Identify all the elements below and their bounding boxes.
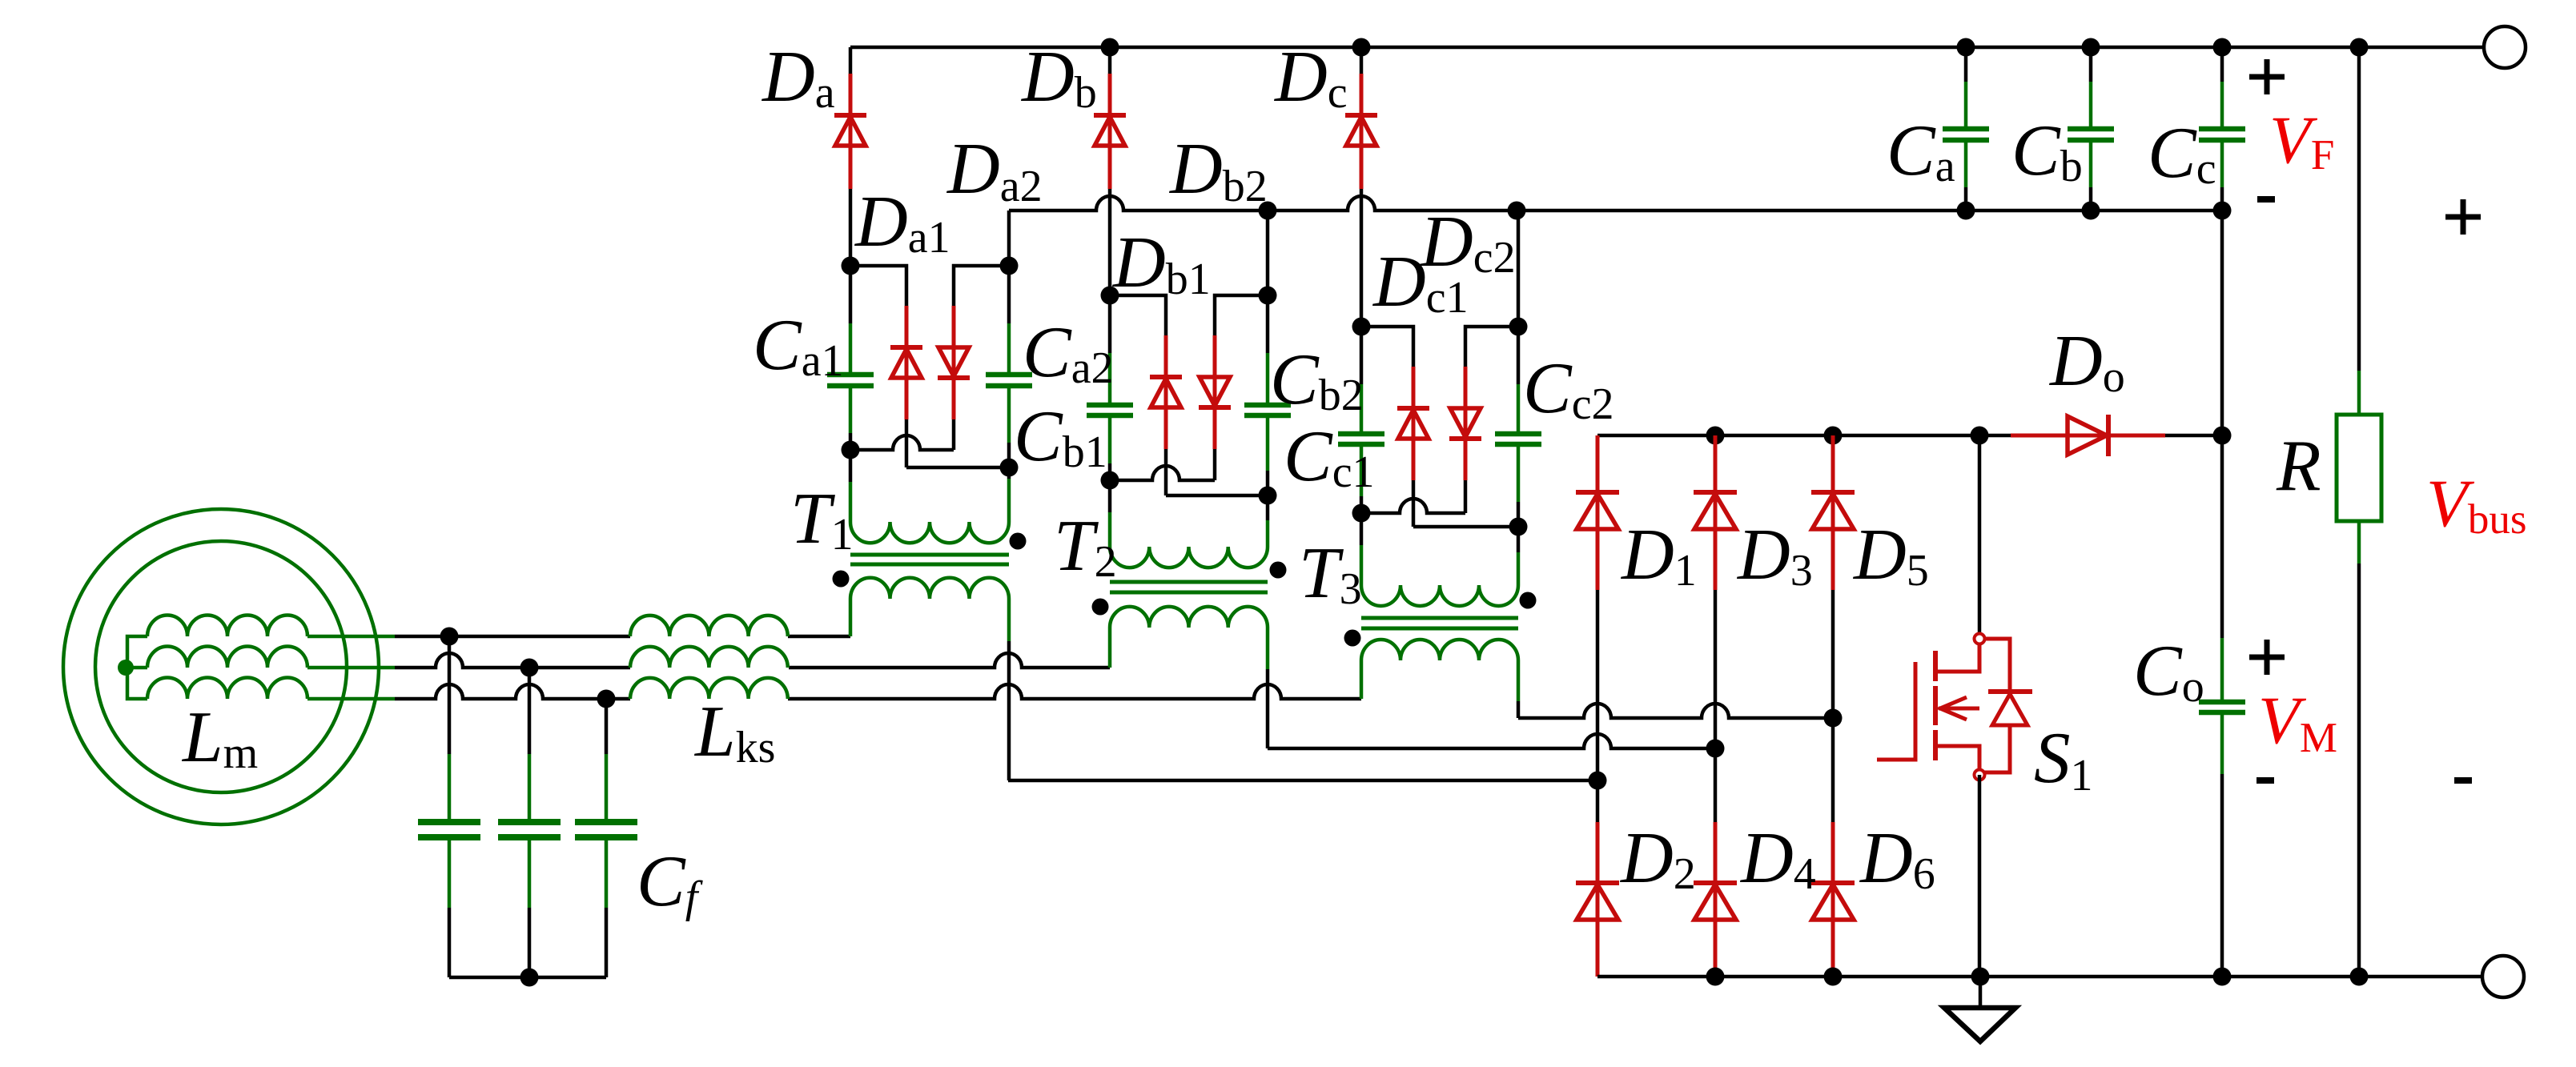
node Dc2 top-right junction — [1509, 318, 1528, 336]
node cell b bottom-right junction — [1259, 487, 1277, 505]
node Cb top junction — [2082, 38, 2100, 57]
svg-text:D6: D6 — [1859, 817, 1935, 899]
capacitor Ca1 — [827, 375, 874, 386]
generator Lm inner circle — [95, 541, 347, 792]
label Dc — [1273, 36, 1348, 118]
label Lks — [693, 691, 775, 772]
capacitor Cf3 top lead — [605, 699, 609, 822]
capacitor Cc1 bottom lead — [1360, 444, 1364, 513]
mosfet S1 drain wire — [1978, 435, 1982, 634]
ground — [1944, 977, 2015, 1041]
resistor R top lead — [2357, 47, 2361, 415]
svg-text:D5: D5 — [1852, 514, 1929, 596]
capacitor Cf2 bottom lead — [528, 837, 532, 977]
label D1 — [1620, 514, 1697, 596]
svg-text:D2: D2 — [1619, 817, 1696, 899]
diode D3 — [1694, 492, 1737, 529]
generator neutral node dot — [118, 660, 134, 676]
wire bottom output rail — [1597, 975, 2482, 979]
node Ca top junction — [1957, 38, 1975, 57]
label D6 — [1859, 817, 1935, 899]
diode Db1 leads — [1164, 335, 1168, 495]
transformer T2 primary winding — [1110, 607, 1268, 628]
diode Dc leads — [1360, 47, 1364, 327]
wire gen phase a green lead — [307, 635, 395, 639]
transformer T3 core — [1361, 618, 1518, 628]
label D3 — [1736, 514, 1813, 596]
resistor R bottom lead — [2357, 521, 2361, 977]
VF plus sign — [2249, 59, 2285, 94]
transformer T2 secondary left lead — [1108, 480, 1112, 547]
svg-text:D4: D4 — [1739, 817, 1816, 899]
diode Da1 leads — [905, 306, 909, 467]
node Dc2 rail junction — [1508, 202, 1526, 220]
svg-text:Co: Co — [2133, 630, 2204, 712]
capacitor Cf1 — [418, 822, 480, 837]
label Do — [2048, 320, 2125, 402]
transformer T1 primary left lead — [849, 599, 853, 636]
capacitor Co bottom lead — [2220, 712, 2224, 977]
label Vbus — [2426, 466, 2527, 543]
wire cell b right top lead — [1266, 211, 1270, 295]
label Ca1 — [753, 304, 844, 386]
capacitor Cf1 bottom lead — [448, 837, 452, 977]
wire cell a inner top-right elbow — [954, 266, 1009, 306]
svg-text:Ca1: Ca1 — [753, 304, 844, 386]
label S1 — [2034, 717, 2093, 800]
transformer T2 primary right lead — [1266, 628, 1270, 748]
node S1 source bottom junction — [1971, 968, 1990, 986]
svg-text:VF: VF — [2269, 102, 2334, 179]
diode D2 — [1576, 883, 1619, 920]
svg-text:Ca2: Ca2 — [1023, 311, 1114, 393]
label D5 — [1852, 514, 1929, 596]
svg-text:T3: T3 — [1299, 532, 1362, 614]
inductor Lks phase c — [630, 678, 788, 699]
wire T1 output to D1 midpoint — [1008, 779, 1597, 783]
diode Db2 — [1199, 377, 1231, 407]
transformer T1 secondary polarity dot — [1010, 533, 1027, 550]
capacitor Ca2 — [986, 375, 1032, 386]
diode Da leads — [849, 47, 853, 266]
capacitor Cf2 top lead — [528, 668, 532, 822]
svg-text:D1: D1 — [1620, 514, 1697, 596]
wire intermediate rail — [1009, 196, 2222, 266]
diode Db1 — [1150, 377, 1182, 407]
svg-text:Da1: Da1 — [854, 181, 950, 263]
wire cell a bottom cross link 1 — [850, 435, 954, 450]
capacitor Cc2 bottom lead — [1517, 444, 1521, 527]
node Db2 rail junction — [1259, 202, 1277, 220]
svg-text:Cc: Cc — [2148, 112, 2216, 194]
wire cell b bottom cross link 2 — [1166, 494, 1268, 498]
diode Da1 — [890, 347, 922, 378]
node R bottom junction — [2350, 968, 2369, 986]
capacitor Cc bottom lead — [2220, 140, 2224, 211]
capacitor Cb2 top lead — [1266, 295, 1270, 405]
svg-text:S1: S1 — [2034, 717, 2093, 800]
wire cell c inner top-left elbow — [1361, 327, 1413, 367]
label Cb1 — [1014, 395, 1107, 477]
label D4 — [1739, 817, 1816, 899]
capacitor Cb — [2068, 129, 2114, 140]
transformer T3 primary right lead — [1517, 660, 1521, 718]
node Db1 top-left junction — [1101, 287, 1119, 305]
svg-text:Lm: Lm — [181, 696, 258, 778]
Co minus sign — [2257, 777, 2274, 784]
diode Do leads — [1979, 434, 2222, 438]
svg-text:T1: T1 — [790, 478, 854, 560]
transformer T3 primary polarity dot — [1344, 630, 1361, 647]
node Db2 top-right junction — [1259, 287, 1277, 305]
label R — [2276, 425, 2321, 506]
diode Dc — [1345, 115, 1377, 146]
mosfet S1 gate — [1877, 662, 1915, 760]
wire cell a inner top-left elbow — [850, 266, 906, 306]
wire cell b bottom cross link 1 — [1110, 466, 1215, 480]
generator neutral bracket — [127, 636, 147, 699]
diode Da — [834, 115, 866, 146]
node D1-D2 midpoint — [1589, 772, 1607, 790]
label Da — [761, 36, 835, 118]
node R top junction — [2350, 38, 2369, 57]
diode D1 — [1576, 492, 1619, 529]
node Ca bottom junction — [1957, 202, 1975, 220]
capacitor Co top lead — [2220, 435, 2224, 702]
diode Db leads — [1108, 47, 1112, 295]
svg-text:Da2: Da2 — [946, 128, 1043, 211]
transformer T1 core — [850, 555, 1009, 564]
diode Db — [1094, 115, 1126, 146]
capacitor Ca1 bottom lead — [849, 386, 853, 450]
wire phase c row — [395, 684, 1361, 699]
label Lm — [181, 696, 258, 778]
transformer T3 secondary right lead — [1517, 527, 1521, 585]
node phase a / Cf1 junction — [440, 628, 459, 646]
capacitor Cc1 — [1338, 434, 1384, 444]
node D4 bottom junction — [1706, 968, 1725, 986]
diode Dc1 — [1397, 408, 1429, 439]
label Cf — [637, 840, 704, 922]
transformer T3 secondary polarity dot — [1520, 592, 1537, 609]
svg-text:Dc2: Dc2 — [1419, 201, 1516, 283]
diode D6 leads — [1831, 718, 1835, 977]
capacitor Cc1 top lead — [1360, 327, 1364, 434]
capacitor Cb2 — [1244, 405, 1291, 415]
diode Dc1 leads — [1412, 367, 1416, 527]
transformer T1 secondary right lead — [1007, 467, 1011, 522]
svg-text:Cb1: Cb1 — [1014, 395, 1107, 477]
label T1 — [790, 478, 854, 560]
node cell b bottom-left junction — [1101, 471, 1119, 490]
transformer T2 core — [1110, 582, 1268, 592]
inductor Lks phase a — [630, 616, 788, 636]
svg-text:T2: T2 — [1054, 505, 1117, 587]
svg-text:Vbus: Vbus — [2426, 466, 2527, 543]
node Db top rail junction — [1101, 38, 1119, 57]
generator winding phase c — [147, 678, 307, 699]
transformer T1 primary right lead — [1007, 599, 1011, 780]
node cell c bottom-right junction — [1509, 518, 1528, 536]
svg-text:Lks: Lks — [693, 691, 775, 772]
svg-text:Cb: Cb — [2011, 110, 2083, 191]
label Ca2 — [1023, 311, 1114, 393]
label Cb2 — [1270, 339, 1364, 420]
capacitor Cb2 bottom lead — [1266, 415, 1270, 495]
node Dc top rail junction — [1352, 38, 1371, 57]
node Dc1 top-left junction — [1352, 318, 1371, 336]
label Cc — [2148, 112, 2216, 194]
label D2 — [1619, 817, 1696, 899]
label T2 — [1054, 505, 1117, 587]
capacitor Cc2 — [1495, 434, 1541, 444]
label VF — [2269, 102, 2334, 179]
node D5 top junction — [1824, 427, 1843, 445]
diode D4 leads — [1714, 748, 1718, 977]
svg-text:Cb2: Cb2 — [1270, 339, 1364, 420]
diode Db2 leads — [1213, 335, 1217, 480]
transformer T3 primary winding — [1361, 640, 1518, 660]
capacitor Cc2 top lead — [1517, 327, 1521, 434]
label Co — [2133, 630, 2204, 712]
diode D1 leads — [1596, 435, 1600, 780]
wire bridge top rail — [1597, 434, 1979, 438]
capacitor Cb1 bottom lead — [1108, 415, 1112, 480]
node Do cathode junction — [2213, 427, 2232, 445]
transformer T3 secondary left lead — [1360, 513, 1364, 585]
terminal positive output — [2484, 26, 2526, 68]
wire Cf bottom rail — [449, 976, 606, 980]
transformer T2 primary left lead — [1108, 628, 1112, 668]
label Db — [1020, 36, 1097, 118]
label Dc1 — [1372, 241, 1469, 323]
node Cf bottom junction — [520, 969, 539, 987]
wire top output rail — [850, 46, 2484, 50]
diode D4 — [1694, 883, 1737, 920]
wire phase b row — [395, 653, 1110, 668]
node Cc top junction — [2213, 38, 2232, 57]
node D5-D6 midpoint — [1824, 709, 1843, 728]
capacitor Cc — [2199, 129, 2245, 140]
svg-text:Da: Da — [761, 36, 835, 118]
diode D6 — [1811, 883, 1855, 920]
svg-text:R: R — [2276, 425, 2321, 506]
node Cb bottom junction — [2082, 202, 2100, 220]
transformer T1 primary winding — [850, 578, 1009, 599]
wire cell b inner top-left elbow — [1110, 295, 1166, 335]
label Ca — [1887, 110, 1955, 191]
mosfet S1 source wire — [1978, 775, 1982, 977]
capacitor Cf3 — [575, 822, 637, 837]
wire gen phase c green lead — [307, 697, 395, 701]
label Cc1 — [1284, 415, 1375, 497]
wire T2 output to D3 midpoint — [1268, 734, 1715, 748]
node cell a bottom-left junction — [842, 441, 860, 459]
generator winding phase a — [147, 616, 307, 637]
label Db1 — [1111, 222, 1211, 304]
capacitor Ca2 bottom lead — [1007, 386, 1011, 467]
node cell c bottom-left junction — [1352, 504, 1371, 523]
capacitor Cf2 — [498, 822, 561, 837]
svg-text:VM: VM — [2258, 683, 2337, 761]
transformer T3 primary left lead — [1360, 660, 1364, 699]
label Da1 — [854, 181, 950, 263]
generator Lm outer circle — [63, 509, 379, 824]
label Da2 — [946, 128, 1043, 211]
label Cb — [2011, 110, 2083, 191]
diode D5 leads — [1831, 435, 1835, 718]
node Da2 top-right junction — [1000, 257, 1019, 275]
label Dc2 — [1419, 201, 1516, 283]
wire Cc to Do node — [2220, 211, 2224, 435]
capacitor Ca — [1943, 129, 1989, 140]
wire cell c right top lead — [1517, 211, 1521, 327]
mosfet S1 source terminal circle — [1975, 770, 1985, 780]
wire cell c bottom cross link 1 — [1361, 499, 1465, 513]
svg-text:Do: Do — [2048, 320, 2125, 402]
transformer T3 secondary winding — [1361, 585, 1518, 606]
capacitor Cb1 top lead — [1108, 295, 1112, 405]
mosfet S1 body — [1935, 644, 1979, 770]
terminal negative output — [2482, 956, 2524, 997]
node phase b / Cf2 junction — [520, 659, 539, 677]
svg-text:Cc2: Cc2 — [1523, 347, 1614, 429]
node D3 top junction — [1706, 427, 1725, 445]
svg-text:Cf: Cf — [637, 840, 704, 922]
transformer T1 primary polarity dot — [833, 571, 850, 588]
VF minus sign — [2257, 196, 2275, 203]
capacitor Cc top lead — [2220, 47, 2224, 129]
Vbus minus sign — [2454, 777, 2472, 784]
node D3-D4 midpoint — [1706, 740, 1725, 758]
diode Dc2 leads — [1464, 367, 1468, 513]
svg-text:Db2: Db2 — [1168, 128, 1268, 211]
node phase c / Cf3 junction — [597, 690, 616, 708]
generator winding phase b — [147, 647, 307, 668]
capacitor Cb top lead — [2089, 47, 2093, 129]
inductor Lks phase b — [630, 647, 788, 668]
mosfet S1 body diode — [1984, 639, 2032, 772]
transformer T1 secondary winding — [850, 522, 1009, 543]
svg-text:D3: D3 — [1736, 514, 1813, 596]
diode D5 — [1811, 492, 1855, 529]
diode Dc2 — [1449, 408, 1481, 439]
wire cell a bottom cross link 2 — [906, 466, 1009, 470]
mosfet S1 drain terminal circle — [1975, 634, 1985, 644]
transformer T2 secondary winding — [1110, 547, 1268, 568]
label T3 — [1299, 532, 1362, 614]
capacitor Ca top lead — [1964, 47, 1968, 129]
wire cell c bottom cross link 2 — [1413, 525, 1518, 529]
wire phase a row — [395, 635, 850, 639]
resistor R — [2337, 415, 2381, 521]
node cell a bottom-right junction — [1000, 459, 1019, 477]
wire cell b inner top-right elbow — [1215, 295, 1268, 335]
Co plus sign — [2249, 640, 2285, 675]
diode Do — [2068, 415, 2108, 456]
label Cc2 — [1523, 347, 1614, 429]
diode Da2 — [938, 347, 970, 378]
transformer T2 primary polarity dot — [1092, 599, 1109, 616]
label Db2 — [1168, 128, 1268, 211]
node S1 drain top junction — [1971, 427, 1989, 445]
wire cell c inner top-right elbow — [1465, 327, 1518, 367]
svg-text:Ca: Ca — [1887, 110, 1955, 191]
capacitor Ca1 top lead — [849, 266, 853, 375]
capacitor Ca bottom lead — [1964, 140, 1968, 211]
node Co bottom junction — [2213, 968, 2232, 986]
capacitor Cf3 bottom lead — [605, 837, 609, 977]
capacitor Cb bottom lead — [2089, 140, 2093, 211]
diode D2 leads — [1596, 780, 1600, 977]
transformer T2 secondary right lead — [1266, 495, 1270, 547]
transformer T1 secondary left lead — [849, 450, 853, 522]
wire gen phase b green lead — [307, 666, 395, 670]
label VM — [2258, 683, 2337, 761]
node Da1 top-left junction — [842, 257, 860, 275]
node Cc bottom junction — [2213, 202, 2232, 220]
svg-text:Db1: Db1 — [1111, 222, 1211, 304]
Vbus plus sign — [2445, 199, 2481, 235]
capacitor Co — [2199, 702, 2245, 712]
capacitor Cb1 — [1087, 405, 1133, 415]
diode Da2 leads — [952, 306, 956, 450]
transformer T2 secondary polarity dot — [1270, 562, 1287, 579]
diode D3 leads — [1714, 435, 1718, 748]
wire T3 output to D5 midpoint — [1518, 704, 1833, 718]
capacitor Cf1 top lead — [448, 636, 452, 822]
capacitor Ca2 top lead — [1007, 266, 1011, 375]
node D6 bottom junction — [1824, 968, 1843, 986]
